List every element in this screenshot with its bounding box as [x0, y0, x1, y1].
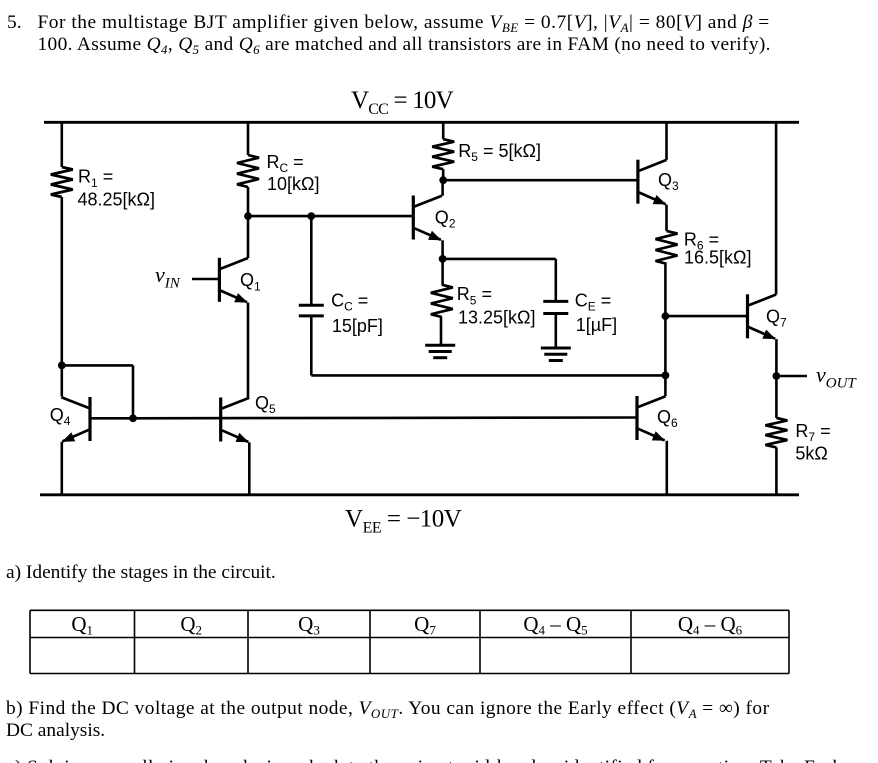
- wire node F to Q3 base: [443, 179, 638, 182]
- svg-text:13.25[kΩ]: 13.25[kΩ]: [458, 307, 536, 327]
- svg-text:R1 =: R1 =: [78, 167, 113, 190]
- svg-text:1[µF]: 1[µF]: [576, 315, 617, 335]
- svg-text:Q7: Q7: [414, 612, 436, 638]
- wire VCC top rail: [44, 121, 799, 124]
- resistor R5 5k: [432, 139, 454, 169]
- svg-text:Q2: Q2: [180, 612, 202, 638]
- svg-text:R5 =: R5 =: [457, 284, 492, 307]
- svg-text:Q5: Q5: [255, 393, 276, 416]
- wire vOUT stub: [776, 375, 807, 378]
- capacitor CE: [543, 301, 568, 313]
- wire CC to node G: [311, 316, 665, 376]
- wire vOUT to R7: [775, 376, 778, 418]
- svg-text:CE =: CE =: [575, 291, 612, 314]
- wire Q1 collector to Q2 base: [248, 215, 413, 218]
- svg-text:vIN: vIN: [155, 262, 181, 292]
- svg-text:10[kΩ]: 10[kΩ]: [267, 174, 319, 194]
- svg-text:VCC = 10V: VCC = 10V: [351, 87, 454, 118]
- transistor Q6: [637, 396, 666, 441]
- svg-text:Q1: Q1: [240, 270, 261, 293]
- wire VCC to R1: [60, 122, 63, 167]
- wire vIN to Q1 base: [192, 278, 219, 281]
- wire VEE bottom rail: [40, 493, 799, 496]
- svg-text:vOUT: vOUT: [816, 362, 857, 392]
- wire VCC to RC: [247, 122, 250, 155]
- node vOUT: [773, 372, 781, 380]
- transistor Q1: [219, 258, 248, 303]
- svg-text:Q3: Q3: [658, 170, 679, 193]
- resistor R6: [656, 231, 678, 264]
- wire Q4 emitter to VEE: [60, 442, 63, 495]
- wire R5b to ground: [440, 317, 443, 345]
- svg-text:VEE = −10V: VEE = −10V: [345, 506, 462, 537]
- table grid: [30, 610, 789, 673]
- svg-text:5kΩ: 5kΩ: [795, 443, 827, 463]
- resistor R7: [765, 418, 787, 448]
- node H: R6 / Q7 base: [662, 312, 670, 320]
- transistor Q2: [413, 196, 442, 241]
- svg-text:100. Assume Q4, Q5 and Q6 are: 100. Assume Q4, Q5 and Q6 are matched an…: [38, 34, 771, 57]
- wire Q7 emitter to vOUT node: [775, 339, 778, 376]
- wire Q6 emitter to VEE: [665, 441, 668, 495]
- wire node H to Q7 base: [665, 315, 747, 318]
- svg-text:5.: 5.: [7, 12, 22, 33]
- svg-text:b) Find the DC voltage at the: b) Find the DC voltage at the output nod…: [6, 698, 770, 721]
- resistor R1: [51, 167, 73, 197]
- wire Q5 emitter to VEE: [248, 442, 251, 495]
- svg-text:R5 = 5[kΩ]: R5 = 5[kΩ]: [458, 141, 541, 164]
- wire R7 to VEE: [775, 447, 778, 494]
- node D: CC tap junction: [307, 212, 315, 220]
- svg-text:16.5[kΩ]: 16.5[kΩ]: [684, 248, 752, 268]
- ground under R5b: [425, 345, 455, 358]
- svg-text:Q6: Q6: [657, 407, 678, 430]
- svg-text:RC =: RC =: [267, 152, 304, 175]
- wire node H down to node G and Q6 collector: [664, 316, 667, 396]
- svg-text:CC =: CC =: [331, 291, 368, 314]
- ground under CE: [541, 348, 571, 361]
- svg-text:15[pF]: 15[pF]: [332, 316, 383, 336]
- wire R5 to node F: [442, 169, 445, 180]
- transistor Q7: [748, 294, 777, 339]
- wire Q7 collector to VCC: [775, 122, 778, 294]
- transistor Q3: [638, 160, 667, 205]
- wire RC to Q1 collector node: [247, 187, 250, 216]
- svg-text:Q1: Q1: [71, 612, 93, 638]
- svg-text:DC analysis.: DC analysis.: [6, 720, 105, 741]
- svg-text:For the multistage BJT amplifi: For the multistage BJT amplifier given b…: [38, 12, 770, 35]
- wire mirror base rail Q4-Q5-Q6: [133, 416, 637, 419]
- wire CE to ground: [554, 314, 557, 349]
- node F: R5/Q2 collector/Q3 base: [439, 176, 447, 184]
- resistor R5b 13.25k: [431, 285, 453, 317]
- svg-text:Q3: Q3: [298, 612, 320, 638]
- svg-text:Q4: Q4: [50, 405, 71, 428]
- svg-text:R7 =: R7 =: [795, 421, 830, 444]
- wire Q2 collector to R5 node: [441, 180, 444, 196]
- svg-text:c) Solving a small-signal anal: c) Solving a small-signal analysis, calc…: [6, 757, 848, 763]
- wire VCC to R5: [442, 122, 445, 139]
- transistor Q4: [61, 397, 90, 442]
- wire R1 to Q4 collector: [60, 197, 63, 397]
- wire Q3 collector to VCC: [665, 122, 668, 160]
- wire node D to CC: [310, 216, 313, 305]
- svg-text:Q2: Q2: [435, 207, 456, 230]
- node G: CC / Q6 collector / Q7 base chain: [662, 372, 670, 380]
- node E: Q2 emitter node: [439, 255, 447, 263]
- wire Q4 base loop: [62, 365, 133, 418]
- svg-text:48.25[kΩ]: 48.25[kΩ]: [78, 190, 156, 210]
- svg-text:Q4 – Q5: Q4 – Q5: [523, 612, 587, 638]
- capacitor CC: [299, 305, 324, 316]
- wire Q1 emitter to Q5 collector: [247, 303, 250, 397]
- wire Q3 emitter to R6: [665, 205, 668, 231]
- node B: Q4 base junction: [129, 414, 137, 422]
- resistor RC: [237, 155, 259, 187]
- svg-text:Q4 – Q6: Q4 – Q6: [678, 612, 743, 638]
- node A: R1/Q4 collector junction: [58, 362, 66, 370]
- wire Q2 emitter to node E: [441, 240, 444, 259]
- svg-text:a) Identify the stages in the: a) Identify the stages in the circuit.: [6, 562, 276, 583]
- wire Q1 collector: [247, 216, 250, 258]
- svg-text:Q7: Q7: [766, 306, 787, 329]
- wire node E to CE: [443, 258, 556, 261]
- wire R6 to node H: [664, 264, 667, 316]
- wire node E to R5b: [441, 259, 444, 285]
- transistor Q5: [221, 398, 250, 443]
- node C: Q1 collector node: [244, 212, 252, 220]
